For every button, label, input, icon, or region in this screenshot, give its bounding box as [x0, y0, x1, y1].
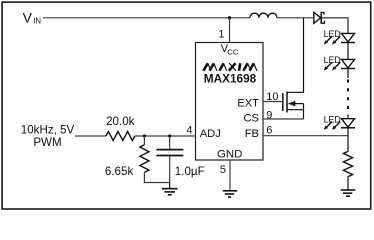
svg-text:5: 5 [220, 164, 226, 176]
wire LED3 to R3 [347, 128, 349, 152]
IC U1 MAX1698 [196, 43, 264, 161]
svg-text:ADJ: ADJ [200, 128, 221, 140]
wire LED1 to LED2 [347, 43, 349, 60]
svg-text:4: 4 [186, 124, 192, 136]
svg-text:LED: LED [324, 114, 341, 124]
capacitor C1 1.0uF [156, 136, 183, 183]
LED D4 [324, 114, 355, 129]
transistor Q1 NMOS [283, 18, 304, 119]
svg-text:EXT: EXT [237, 97, 259, 109]
ground under R3 [341, 190, 356, 196]
wire inductor to diode [277, 17, 314, 19]
svg-text:GND: GND [217, 149, 242, 161]
svg-text:MAX1698: MAX1698 [204, 71, 257, 85]
junction dot C1 tap [168, 134, 171, 137]
wire dashed (more LEDs) [347, 80, 349, 116]
resistor R3 [343, 151, 352, 176]
wire CS to source [263, 118, 304, 120]
LED D2 [324, 29, 355, 44]
wire R1 to ADJ [135, 135, 196, 137]
VCC pin label [221, 43, 239, 56]
svg-text:1: 1 [218, 28, 224, 40]
junction dot at VCC tap [228, 16, 231, 19]
svg-text:LED: LED [324, 29, 341, 39]
resistor R2 6.65k [140, 136, 149, 183]
wire diode to LED string corner [321, 18, 348, 34]
inductor L1 [250, 13, 277, 18]
wire pin1 VCC [229, 18, 231, 43]
MAXIM logo [203, 63, 257, 71]
svg-text:V: V [23, 10, 33, 26]
node VIN label [23, 10, 41, 26]
wire EXT to gate [263, 101, 283, 103]
svg-text:20.0k: 20.0k [106, 115, 135, 128]
diode D1 schottky [314, 12, 325, 24]
junction dot R2 tap [143, 134, 146, 137]
wire FB to LED string [263, 135, 348, 137]
svg-text:LED: LED [324, 55, 341, 65]
resistor R1 20.0k [106, 132, 135, 141]
svg-text:PWM: PWM [33, 136, 61, 149]
wire GND pin 5 [229, 160, 231, 190]
wire R3 to ground [347, 177, 349, 190]
svg-text:CS: CS [243, 113, 259, 125]
PWM source label [21, 123, 75, 149]
wire VIN rail to inductor [43, 17, 250, 19]
ground under C1 [162, 183, 178, 195]
svg-text:1.0µF: 1.0µF [175, 165, 205, 178]
svg-text:IN: IN [33, 17, 41, 26]
ground under U1 [223, 191, 237, 197]
LED D3 [324, 55, 355, 70]
svg-text:6: 6 [266, 124, 272, 136]
svg-text:10kHz, 5V: 10kHz, 5V [21, 123, 75, 136]
wire LED2 to dashes [347, 69, 349, 79]
wire PWM to R1 [75, 135, 106, 137]
svg-text:6.65k: 6.65k [105, 165, 134, 178]
wire dashes to LED3 [347, 116, 349, 119]
svg-text:FB: FB [245, 128, 259, 140]
svg-text:CC: CC [227, 47, 238, 56]
wire R2 bottom to C1 bottom [144, 182, 170, 184]
